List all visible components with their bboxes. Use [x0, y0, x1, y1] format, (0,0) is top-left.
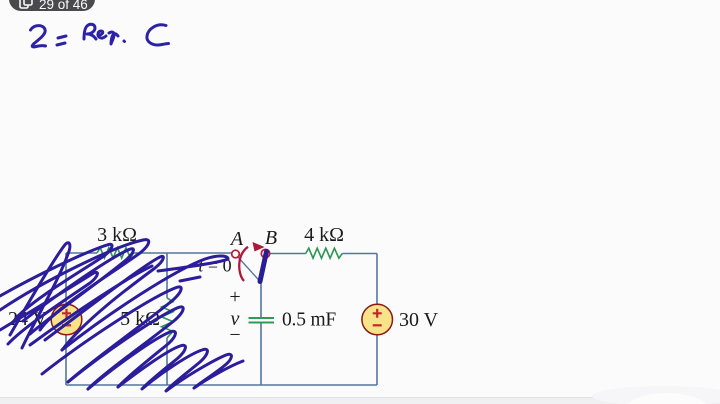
wire: 4k resistor to top-right corner	[342, 253, 377, 255]
wire: left vertical branch	[65, 253, 67, 385]
resistor 5 kOhm zigzag (vertical)	[162, 298, 174, 338]
svg-text:+: +	[229, 286, 240, 308]
svg-text:−: −	[229, 324, 240, 346]
wire: middle 5k branch vertical	[166, 253, 168, 385]
wire: switch pole from node A to pivot	[238, 257, 262, 283]
svg-text:4 kΩ: 4 kΩ	[304, 224, 344, 246]
voltage source 30 V	[362, 304, 393, 335]
switch motion arrow (red arc)	[239, 242, 264, 281]
resistor 3 kOhm zigzag	[97, 248, 134, 258]
wire: bottom horizontal	[66, 384, 377, 386]
capacitor C 0.5 mF plates	[249, 318, 275, 323]
switch blade (closed to B)	[260, 252, 267, 282]
wire: top-left horizontal (left node to 3k resistor)	[66, 253, 377, 385]
wire: node B to 4k resistor	[270, 253, 306, 255]
svg-text:A: A	[229, 228, 244, 250]
scribble strokes (annotation ink)	[0, 240, 243, 391]
voltage source 24 V	[51, 304, 82, 335]
svg-text:30 V: 30 V	[399, 309, 439, 331]
svg-text:29 of 46: 29 of 46	[39, 0, 88, 12]
wire: 3k resistor to node A	[134, 252, 232, 254]
handwritten annotation "t = Req . C"	[31, 24, 169, 47]
switch node A terminal circle	[232, 250, 240, 258]
switch node B terminal circle	[261, 249, 269, 257]
svg-text:0.5 mF: 0.5 mF	[282, 310, 336, 331]
wire: right vertical branch	[376, 254, 378, 386]
svg-text:B: B	[265, 227, 277, 249]
bottom UI strip	[0, 386, 720, 404]
wire: capacitor branch vertical	[260, 283, 262, 386]
resistor 4 kOhm zigzag	[306, 248, 343, 258]
page counter pill "29 of 46"	[9, 0, 95, 12]
